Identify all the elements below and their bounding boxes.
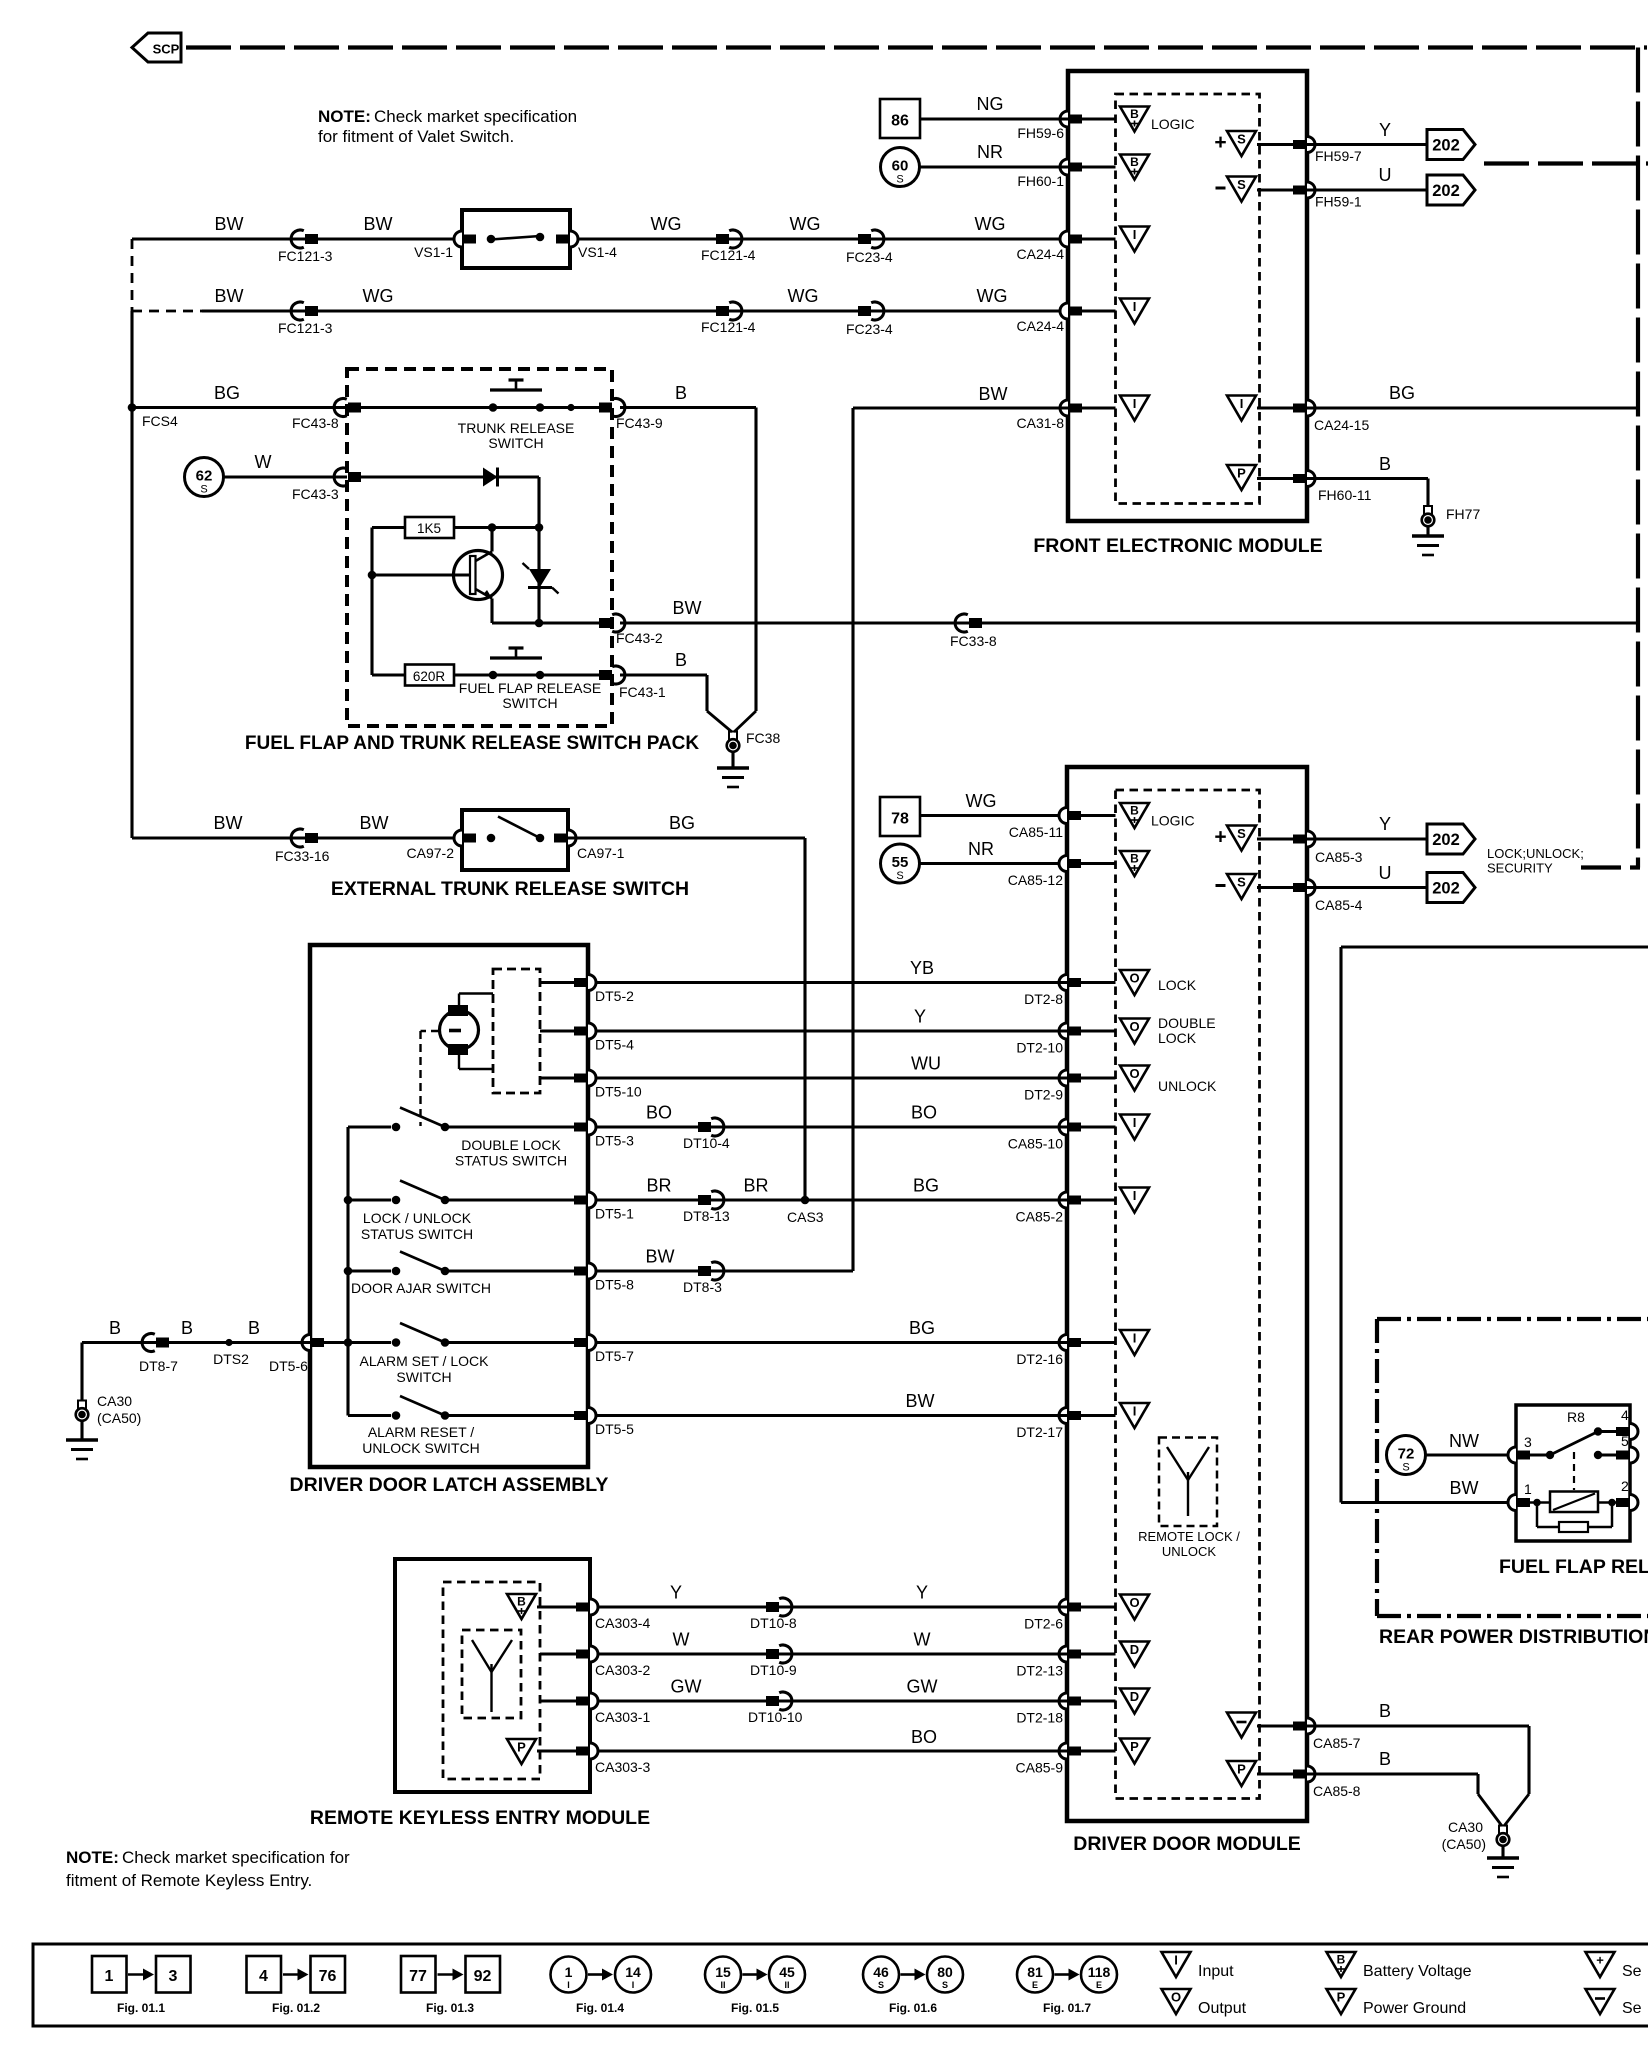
svg-text:BW: BW <box>360 813 389 833</box>
svg-text:DOUBLE LOCK: DOUBLE LOCK <box>461 1137 561 1153</box>
svg-text:B: B <box>1379 1701 1391 1721</box>
svg-text:REMOTE LOCK /: REMOTE LOCK / <box>1138 1529 1240 1544</box>
svg-text:BO: BO <box>911 1103 937 1123</box>
svg-text:CA24-4: CA24-4 <box>1017 246 1065 262</box>
svg-text:Y: Y <box>670 1583 682 1603</box>
svg-text:VS1-4: VS1-4 <box>578 244 617 260</box>
svg-text:P: P <box>1237 1762 1246 1777</box>
svg-text:S: S <box>1237 177 1246 192</box>
svg-text:REMOTE KEYLESS ENTRY MODULE: REMOTE KEYLESS ENTRY MODULE <box>310 1807 650 1829</box>
svg-text:FC33-8: FC33-8 <box>950 633 997 649</box>
svg-text:72: 72 <box>1398 1446 1415 1463</box>
svg-text:P: P <box>1237 466 1246 481</box>
svg-text:FH77: FH77 <box>1446 506 1480 522</box>
svg-text:Y: Y <box>1379 814 1391 834</box>
svg-text:S: S <box>942 1980 948 1990</box>
svg-text:FC23-4: FC23-4 <box>846 249 893 265</box>
svg-text:+: + <box>1214 131 1226 154</box>
svg-text:FC43-8: FC43-8 <box>292 415 339 431</box>
svg-text:DT5-2: DT5-2 <box>595 988 634 1004</box>
svg-text:DOUBLE: DOUBLE <box>1158 1015 1216 1031</box>
svg-text:DT8-7: DT8-7 <box>139 1358 178 1374</box>
svg-text:YB: YB <box>910 958 934 978</box>
svg-text:UNLOCK: UNLOCK <box>1162 1544 1217 1559</box>
svg-text:Output: Output <box>1198 2000 1247 2017</box>
svg-text:Fig. 01.4: Fig. 01.4 <box>576 2001 624 2015</box>
svg-text:81: 81 <box>1027 1964 1043 1980</box>
svg-text:B: B <box>1379 1749 1391 1769</box>
svg-text:3: 3 <box>169 1968 178 1985</box>
svg-text:B: B <box>675 650 687 670</box>
svg-text:202: 202 <box>1432 880 1460 898</box>
svg-text:CA24-15: CA24-15 <box>1314 417 1369 433</box>
svg-text:Fig. 01.5: Fig. 01.5 <box>731 2001 779 2015</box>
svg-text:DT10-10: DT10-10 <box>748 1709 803 1725</box>
svg-text:O: O <box>1129 1019 1139 1034</box>
svg-text:LOGIC: LOGIC <box>1151 116 1195 132</box>
svg-text:Check market specification for: Check market specification for <box>122 1848 350 1867</box>
svg-text:FH60-11: FH60-11 <box>1318 487 1372 503</box>
svg-text:4: 4 <box>1621 1407 1629 1423</box>
svg-text:O: O <box>1129 1066 1139 1081</box>
svg-text:Battery Voltage: Battery Voltage <box>1363 1963 1472 1980</box>
svg-text:I: I <box>1133 1404 1137 1419</box>
svg-text:REAR POWER DISTRIBUTION FUS: REAR POWER DISTRIBUTION FUS <box>1379 1626 1648 1648</box>
svg-text:BG: BG <box>909 1318 935 1338</box>
svg-text:FC121-3: FC121-3 <box>278 320 333 336</box>
svg-text:II: II <box>784 1980 789 1990</box>
svg-text:B: B <box>181 1318 193 1338</box>
svg-text:D: D <box>1130 1642 1139 1657</box>
svg-text:ALARM RESET /: ALARM RESET / <box>368 1424 474 1440</box>
svg-text:LOCK / UNLOCK: LOCK / UNLOCK <box>363 1210 472 1226</box>
svg-text:Fig. 01.7: Fig. 01.7 <box>1043 2001 1091 2015</box>
svg-text:DRIVER DOOR LATCH ASSEMBLY: DRIVER DOOR LATCH ASSEMBLY <box>290 1474 609 1496</box>
svg-text:FC33-16: FC33-16 <box>275 848 330 864</box>
svg-text:Power Ground: Power Ground <box>1363 2000 1466 2017</box>
svg-text:CA30: CA30 <box>1448 1819 1483 1835</box>
svg-text:1: 1 <box>105 1968 114 1985</box>
svg-text:BG: BG <box>913 1176 939 1196</box>
svg-text:FUEL FLAP AND TRUNK RELEASE SW: FUEL FLAP AND TRUNK RELEASE SWITCH PACK <box>245 733 700 754</box>
svg-text:LOCK: LOCK <box>1158 977 1197 993</box>
svg-text:CA303-2: CA303-2 <box>595 1662 650 1678</box>
svg-text:S: S <box>1237 132 1246 147</box>
svg-text:Y: Y <box>916 1583 928 1603</box>
svg-text:STATUS SWITCH: STATUS SWITCH <box>455 1153 567 1169</box>
svg-text:I: I <box>1133 299 1137 314</box>
svg-text:S: S <box>896 174 903 186</box>
svg-text:P: P <box>517 1740 526 1755</box>
svg-text:STATUS SWITCH: STATUS SWITCH <box>361 1226 473 1242</box>
svg-text:LOCK;UNLOCK;: LOCK;UNLOCK; <box>1487 846 1584 861</box>
svg-text:CA303-1: CA303-1 <box>595 1709 650 1725</box>
svg-text:B: B <box>1337 1953 1346 1967</box>
svg-text:DT8-3: DT8-3 <box>683 1279 722 1295</box>
svg-text:78: 78 <box>891 811 909 828</box>
svg-text:CA303-3: CA303-3 <box>595 1759 650 1775</box>
svg-text:BW: BW <box>673 598 702 618</box>
svg-text:BG: BG <box>669 813 695 833</box>
svg-text:I: I <box>1133 1115 1137 1130</box>
svg-text:B: B <box>1379 454 1391 474</box>
svg-text:3: 3 <box>1524 1434 1532 1450</box>
svg-text:DT8-13: DT8-13 <box>683 1208 730 1224</box>
svg-text:BG: BG <box>1389 383 1415 403</box>
svg-text:FH59-1: FH59-1 <box>1315 194 1362 210</box>
svg-text:45: 45 <box>779 1964 795 1980</box>
svg-text:B: B <box>248 1318 260 1338</box>
svg-text:CA85-10: CA85-10 <box>1008 1136 1063 1152</box>
svg-text:CA85-3: CA85-3 <box>1315 849 1363 865</box>
svg-text:CA97-1: CA97-1 <box>577 845 625 861</box>
svg-text:77: 77 <box>409 1968 427 1985</box>
svg-text:DT5-8: DT5-8 <box>595 1277 634 1293</box>
svg-text:BW: BW <box>646 1247 675 1267</box>
svg-text:FC43-9: FC43-9 <box>616 415 663 431</box>
svg-text:BR: BR <box>743 1176 768 1196</box>
svg-text:CA30: CA30 <box>97 1393 132 1409</box>
svg-text:NR: NR <box>977 142 1003 162</box>
svg-text:DT2-8: DT2-8 <box>1024 991 1063 1007</box>
svg-text:+: + <box>1214 826 1226 849</box>
svg-text:NW: NW <box>1449 1431 1479 1451</box>
svg-text:DT5-6: DT5-6 <box>269 1358 308 1374</box>
svg-text:+: + <box>1596 1953 1604 1968</box>
svg-text:FC43-1: FC43-1 <box>619 684 666 700</box>
svg-text:60: 60 <box>892 158 909 175</box>
svg-text:II: II <box>720 1980 725 1990</box>
svg-text:S: S <box>1237 826 1246 841</box>
svg-text:W: W <box>914 1630 931 1650</box>
svg-text:FH59-7: FH59-7 <box>1315 148 1362 164</box>
svg-text:DT2-13: DT2-13 <box>1016 1663 1063 1679</box>
svg-text:O: O <box>1171 1990 1181 2005</box>
svg-text:CA97-2: CA97-2 <box>407 845 455 861</box>
svg-text:NR: NR <box>968 839 994 859</box>
svg-text:NG: NG <box>977 94 1004 114</box>
svg-text:B: B <box>675 383 687 403</box>
svg-text:NOTE:: NOTE: <box>318 107 371 126</box>
svg-text:BW: BW <box>906 1391 935 1411</box>
svg-text:I: I <box>1133 396 1137 411</box>
svg-text:Fig. 01.2: Fig. 01.2 <box>272 2001 320 2015</box>
svg-text:VS1-1: VS1-1 <box>414 244 453 260</box>
svg-text:DTS2: DTS2 <box>213 1351 249 1367</box>
svg-text:(CA50): (CA50) <box>1442 1836 1486 1852</box>
svg-text:B: B <box>1130 852 1139 866</box>
svg-text:(CA50): (CA50) <box>97 1410 141 1426</box>
svg-text:FC43-2: FC43-2 <box>616 630 663 646</box>
svg-text:Check market specification: Check market specification <box>374 107 577 126</box>
svg-text:SWITCH: SWITCH <box>488 435 543 451</box>
svg-text:S: S <box>1237 875 1246 890</box>
svg-text:BW: BW <box>364 214 393 234</box>
svg-text:E: E <box>1096 1980 1102 1990</box>
svg-text:EXTERNAL TRUNK RELEASE SWITCH: EXTERNAL TRUNK RELEASE SWITCH <box>331 878 689 900</box>
svg-text:BG: BG <box>214 383 240 403</box>
svg-text:CA85-9: CA85-9 <box>1016 1760 1064 1776</box>
svg-text:FC121-4: FC121-4 <box>701 319 756 335</box>
svg-text:O: O <box>1129 971 1139 986</box>
svg-text:W: W <box>673 1630 690 1650</box>
svg-text:CA31-8: CA31-8 <box>1017 415 1065 431</box>
svg-text:TRUNK RELEASE: TRUNK RELEASE <box>458 420 575 436</box>
svg-text:FCS4: FCS4 <box>142 413 178 429</box>
svg-text:B: B <box>1130 107 1139 121</box>
svg-text:DOOR AJAR SWITCH: DOOR AJAR SWITCH <box>351 1280 491 1296</box>
svg-text:FUEL FLAP RELEASE: FUEL FLAP RELEASE <box>459 680 601 696</box>
svg-text:SCP: SCP <box>153 42 180 57</box>
svg-text:I: I <box>1240 396 1244 411</box>
svg-text:BW: BW <box>214 813 243 833</box>
svg-text:FRONT ELECTRONIC MODULE: FRONT ELECTRONIC MODULE <box>1033 535 1322 557</box>
svg-text:I: I <box>1133 227 1137 242</box>
svg-text:1K5: 1K5 <box>417 521 441 536</box>
svg-text:1: 1 <box>565 1964 573 1980</box>
svg-text:SWITCH: SWITCH <box>502 695 557 711</box>
svg-text:BR: BR <box>646 1176 671 1196</box>
svg-text:UNLOCK SWITCH: UNLOCK SWITCH <box>362 1440 479 1456</box>
svg-text:I: I <box>1174 1953 1178 1968</box>
svg-text:FH60-1: FH60-1 <box>1017 173 1064 189</box>
svg-text:DT5-3: DT5-3 <box>595 1133 634 1149</box>
svg-text:WG: WG <box>788 286 819 306</box>
svg-text:4: 4 <box>259 1968 268 1985</box>
svg-text:B: B <box>109 1318 121 1338</box>
svg-text:Y: Y <box>1379 120 1391 140</box>
svg-text:DT2-6: DT2-6 <box>1024 1616 1063 1632</box>
svg-text:R8: R8 <box>1567 1409 1585 1425</box>
svg-text:CA85-4: CA85-4 <box>1315 897 1363 913</box>
svg-text:FC23-4: FC23-4 <box>846 321 893 337</box>
svg-text:DT2-10: DT2-10 <box>1016 1040 1063 1056</box>
svg-text:O: O <box>1129 1595 1139 1610</box>
svg-text:LOGIC: LOGIC <box>1151 813 1195 829</box>
svg-text:FUEL FLAP RELAY: FUEL FLAP RELAY <box>1499 1556 1648 1578</box>
svg-text:WU: WU <box>911 1054 941 1074</box>
svg-text:I: I <box>1133 1331 1137 1346</box>
svg-text:I: I <box>632 1980 635 1990</box>
svg-text:DT2-16: DT2-16 <box>1016 1351 1063 1367</box>
svg-text:fitment of Remote Keyless Entr: fitment of Remote Keyless Entry. <box>66 1871 312 1890</box>
svg-text:DT10-4: DT10-4 <box>683 1135 730 1151</box>
svg-text:CA85-12: CA85-12 <box>1008 872 1063 888</box>
svg-text:D: D <box>1130 1689 1139 1704</box>
svg-text:BW: BW <box>979 384 1008 404</box>
svg-text:118: 118 <box>1088 1964 1111 1980</box>
svg-text:B: B <box>1130 804 1139 818</box>
svg-text:FH59-6: FH59-6 <box>1017 125 1064 141</box>
svg-text:U: U <box>1379 165 1392 185</box>
svg-text:CA85-11: CA85-11 <box>1009 824 1063 840</box>
svg-text:55: 55 <box>892 854 909 871</box>
svg-text:92: 92 <box>474 1968 492 1985</box>
svg-text:DT5-1: DT5-1 <box>595 1206 634 1222</box>
svg-text:Se: Se <box>1622 2000 1642 2017</box>
svg-text:BO: BO <box>646 1103 672 1123</box>
svg-text:SECURITY: SECURITY <box>1487 861 1553 876</box>
svg-text:Fig. 01.6: Fig. 01.6 <box>889 2001 937 2015</box>
svg-text:BW: BW <box>1450 1478 1479 1498</box>
svg-text:B: B <box>1130 155 1139 169</box>
svg-text:DT2-9: DT2-9 <box>1024 1087 1063 1103</box>
svg-text:CAS3: CAS3 <box>787 1209 824 1225</box>
svg-text:WG: WG <box>790 214 821 234</box>
svg-text:I: I <box>567 1980 570 1990</box>
svg-text:FC121-4: FC121-4 <box>701 247 756 263</box>
svg-text:U: U <box>1379 863 1392 883</box>
svg-text:CA24-4: CA24-4 <box>1017 318 1065 334</box>
svg-text:GW: GW <box>907 1677 938 1697</box>
svg-text:15: 15 <box>715 1964 731 1980</box>
svg-text:P: P <box>1337 1990 1346 2005</box>
svg-text:GW: GW <box>671 1677 702 1697</box>
svg-text:DT5-10: DT5-10 <box>595 1084 642 1100</box>
svg-text:620R: 620R <box>413 669 446 684</box>
svg-text:UNLOCK: UNLOCK <box>1158 1078 1217 1094</box>
svg-text:202: 202 <box>1432 137 1460 155</box>
svg-text:14: 14 <box>625 1964 641 1980</box>
svg-text:P: P <box>1130 1739 1139 1754</box>
svg-text:Y: Y <box>914 1007 926 1027</box>
svg-text:46: 46 <box>873 1964 889 1980</box>
svg-text:DT5-4: DT5-4 <box>595 1037 634 1053</box>
svg-text:62: 62 <box>196 468 213 485</box>
svg-text:WG: WG <box>651 214 682 234</box>
svg-text:E: E <box>1032 1980 1038 1990</box>
svg-text:S: S <box>200 484 207 496</box>
svg-text:WG: WG <box>966 791 997 811</box>
svg-text:86: 86 <box>891 113 909 130</box>
svg-text:S: S <box>1402 1462 1409 1474</box>
svg-text:LOCK: LOCK <box>1158 1030 1197 1046</box>
svg-text:DT5-5: DT5-5 <box>595 1421 634 1437</box>
svg-text:BW: BW <box>215 214 244 234</box>
svg-text:80: 80 <box>937 1964 953 1980</box>
svg-text:WG: WG <box>975 214 1006 234</box>
svg-text:76: 76 <box>319 1968 337 1985</box>
svg-text:Fig. 01.1: Fig. 01.1 <box>117 2001 165 2015</box>
svg-text:CA85-8: CA85-8 <box>1313 1783 1361 1799</box>
svg-text:CA85-2: CA85-2 <box>1016 1209 1064 1225</box>
svg-text:202: 202 <box>1432 831 1460 849</box>
svg-text:Fig. 01.3: Fig. 01.3 <box>426 2001 474 2015</box>
svg-text:BO: BO <box>911 1727 937 1747</box>
svg-text:CA85-7: CA85-7 <box>1313 1735 1361 1751</box>
svg-text:5: 5 <box>1621 1433 1629 1449</box>
svg-text:DRIVER DOOR MODULE: DRIVER DOOR MODULE <box>1073 1833 1301 1855</box>
svg-text:WG: WG <box>977 286 1008 306</box>
svg-text:S: S <box>878 1980 884 1990</box>
svg-text:FC43-3: FC43-3 <box>292 486 339 502</box>
svg-text:DT2-18: DT2-18 <box>1016 1710 1063 1726</box>
svg-text:DT10-8: DT10-8 <box>750 1615 797 1631</box>
svg-text:NOTE:: NOTE: <box>66 1848 119 1867</box>
svg-text:S: S <box>896 870 903 882</box>
svg-text:W: W <box>255 452 272 472</box>
svg-text:1: 1 <box>1524 1481 1532 1497</box>
svg-text:Se: Se <box>1622 1963 1642 1980</box>
svg-text:2: 2 <box>1621 1478 1629 1494</box>
svg-text:BW: BW <box>215 286 244 306</box>
svg-text:WG: WG <box>363 286 394 306</box>
svg-text:DT5-7: DT5-7 <box>595 1348 634 1364</box>
svg-text:CA303-4: CA303-4 <box>595 1615 650 1631</box>
svg-text:I: I <box>1133 1188 1137 1203</box>
svg-text:202: 202 <box>1432 182 1460 200</box>
svg-text:SWITCH: SWITCH <box>396 1369 451 1385</box>
svg-text:for fitment of Valet Switch.: for fitment of Valet Switch. <box>318 127 514 146</box>
svg-text:B: B <box>517 1595 526 1609</box>
svg-text:ALARM SET / LOCK: ALARM SET / LOCK <box>360 1353 490 1369</box>
svg-text:Input: Input <box>1198 1963 1234 1980</box>
svg-text:DT10-9: DT10-9 <box>750 1662 797 1678</box>
svg-text:FC121-3: FC121-3 <box>278 248 333 264</box>
svg-text:FC38: FC38 <box>746 730 780 746</box>
svg-text:DT2-17: DT2-17 <box>1016 1424 1063 1440</box>
